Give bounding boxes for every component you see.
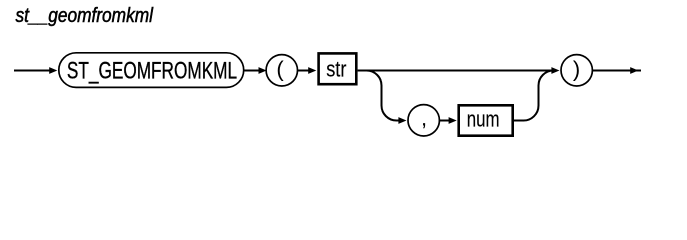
svg-text:(: ( (276, 56, 284, 81)
wire main to close paren (358, 70, 553, 72)
terminal ) (561, 55, 592, 86)
wire comma to num (439, 120, 449, 122)
svg-text:str: str (326, 57, 346, 82)
svg-text:st__geomfromkml: st__geomfromkml (16, 5, 154, 27)
svg-text:num: num (467, 106, 500, 131)
svg-text:): ) (573, 56, 580, 81)
wire to open paren (245, 70, 261, 72)
terminal ( (266, 55, 297, 86)
non-terminal str (319, 53, 357, 84)
wire end (593, 70, 641, 72)
wire start (14, 70, 51, 72)
svg-text:,: , (421, 105, 427, 130)
svg-text:ST_GEOMFROMKML: ST_GEOMFROMKML (67, 58, 237, 85)
wire branch return up (514, 71, 554, 121)
wire branch down (367, 71, 399, 121)
terminal , (408, 105, 439, 136)
non-terminal num (459, 105, 513, 135)
wire to str (298, 70, 310, 72)
terminal ST_GEOMFROMKML (59, 53, 244, 88)
